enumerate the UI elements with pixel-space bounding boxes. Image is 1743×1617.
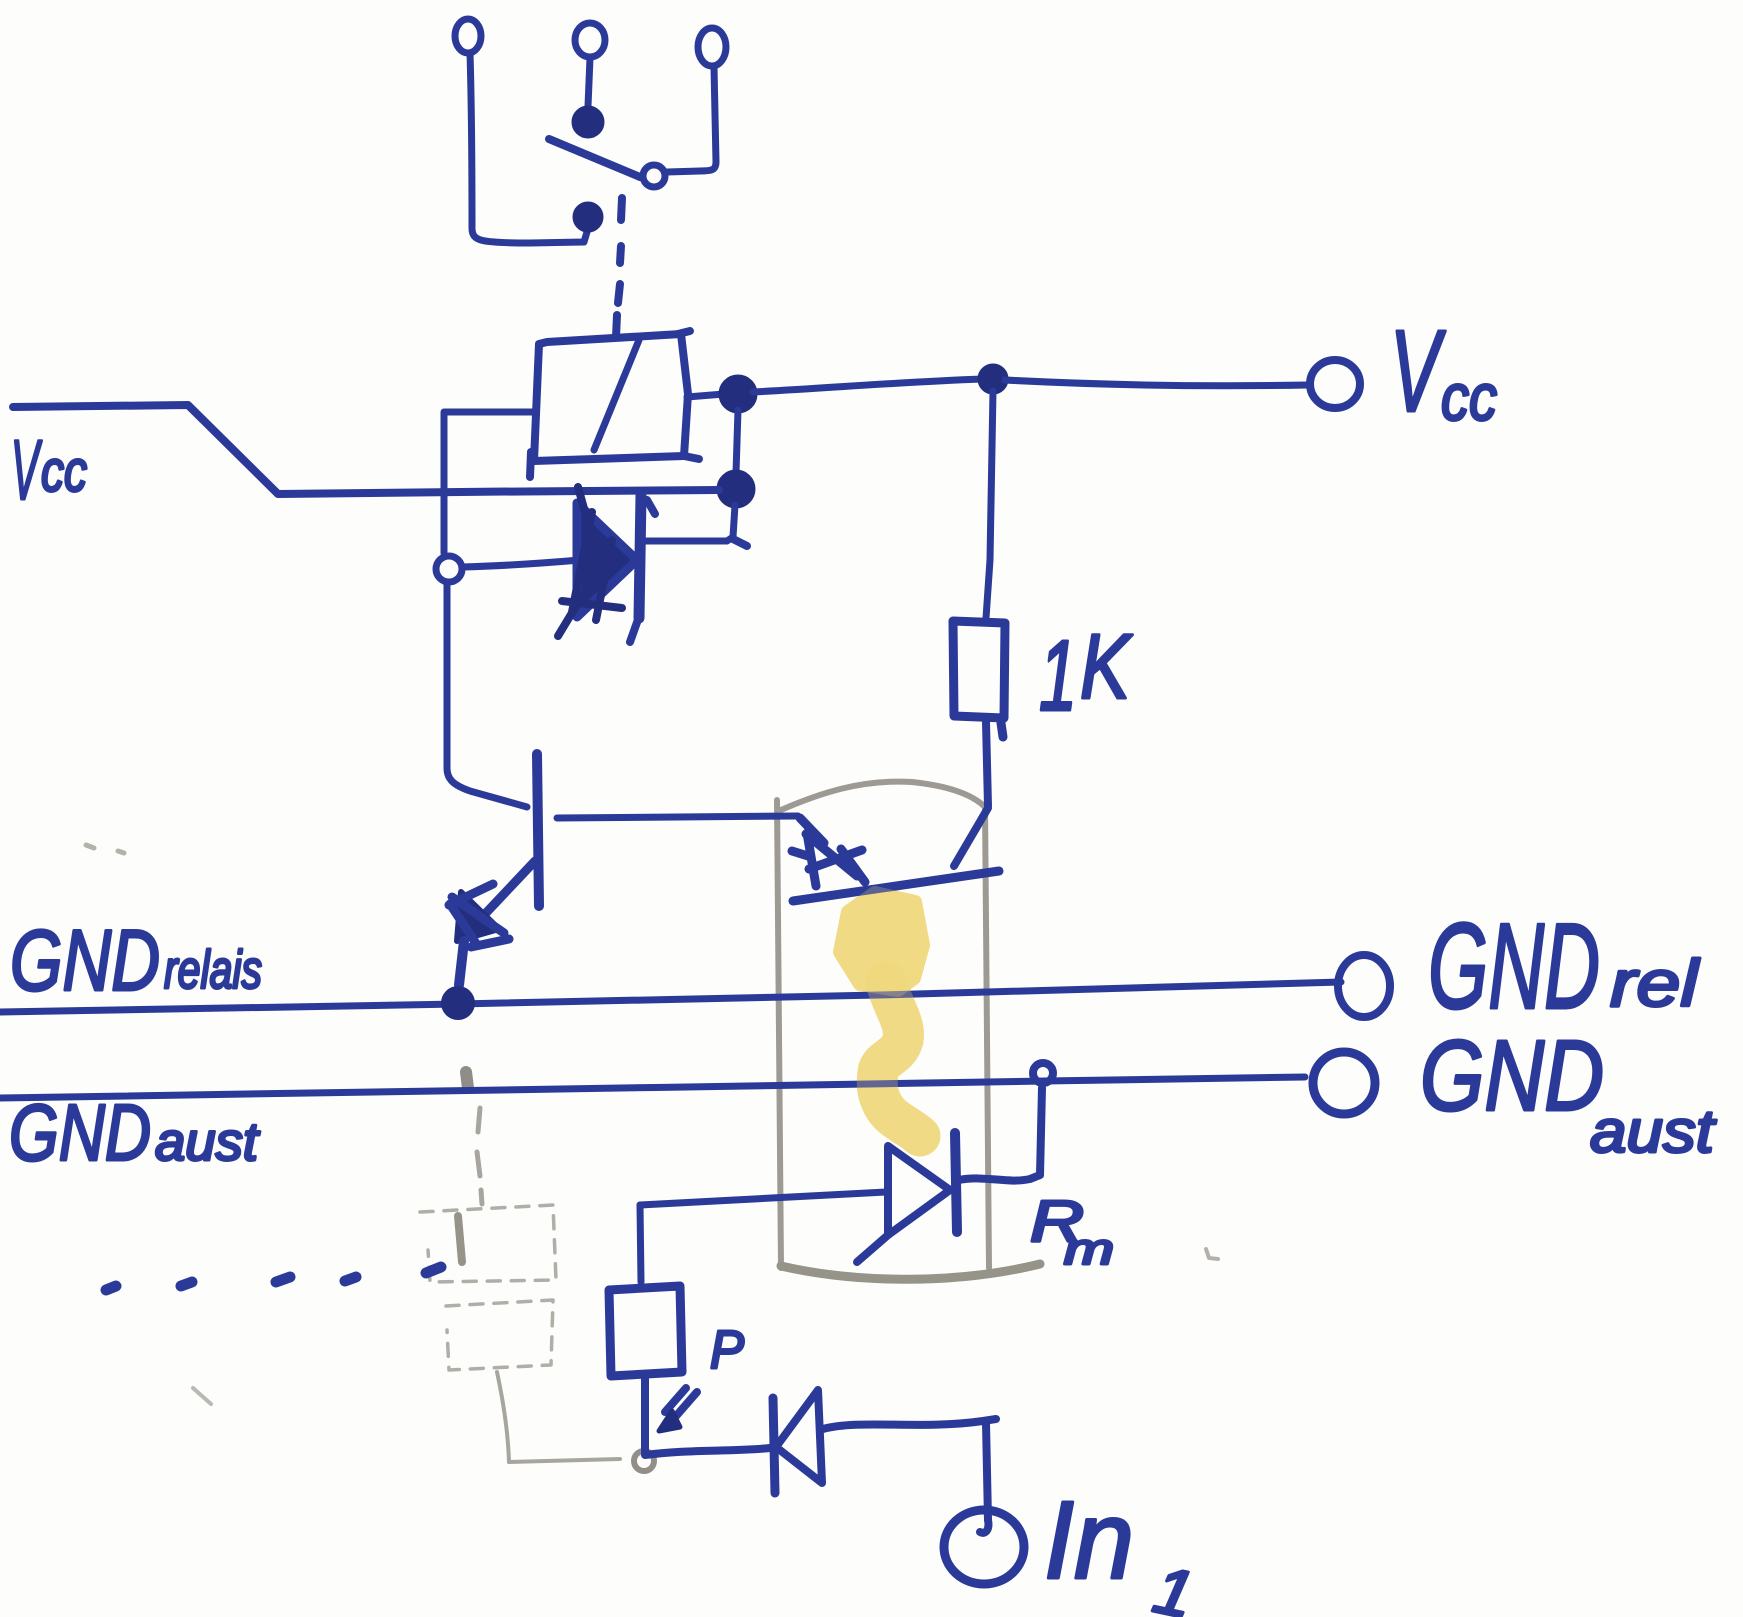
relay contact terminal T2: [575, 23, 605, 57]
diode D2 cathode bar: [773, 1398, 775, 1493]
D1 scribble strokes: [558, 487, 622, 636]
wire J3 down to resistor: [986, 391, 993, 618]
GND relais terminal circle: [1338, 955, 1390, 1017]
pencil speck bottom left: [193, 1388, 211, 1404]
dotted row bottom left: [106, 1267, 441, 1290]
wire J3 to Vcc terminal: [1005, 380, 1308, 386]
label Vcc left: [11, 423, 87, 517]
switch contact circle: [643, 165, 665, 187]
GND aust rail: [0, 1077, 1305, 1098]
pencil dashed box 2: [446, 1300, 553, 1370]
D1 cathode bar: [639, 495, 641, 618]
LED cathode junction ring: [1033, 1063, 1053, 1083]
GND aust terminal circle: [1313, 1052, 1375, 1114]
pencil tick near Rm: [1206, 1249, 1218, 1259]
svg-text:1: 1: [1039, 620, 1077, 732]
svg-text:K: K: [1080, 616, 1133, 718]
switch pole dot: [575, 109, 601, 135]
corner knot tick: [733, 539, 747, 546]
P wiper arrow: [665, 1388, 697, 1423]
resistor R1 1K: [953, 621, 1005, 718]
LED cathode bar: [955, 1133, 957, 1232]
svg-text:V: V: [11, 423, 42, 517]
junction dot J1: [722, 378, 754, 410]
wire node A down to transistor: [447, 584, 527, 807]
wire T1 down to switch common: [470, 53, 587, 243]
svg-text:cc: cc: [1441, 360, 1497, 434]
svg-text:m: m: [1064, 1225, 1114, 1274]
svg-text:GND: GND: [10, 913, 160, 1009]
wire D1 cathode to J2: [643, 505, 735, 541]
Vcc terminal circle: [1310, 360, 1360, 408]
relay coil corner tick: [678, 331, 690, 334]
label Vcc right: [1390, 306, 1497, 436]
relay coil K1: [534, 334, 688, 461]
svg-text:V: V: [1390, 306, 1446, 436]
GND relais rail: [0, 982, 1341, 1012]
pencil wire to diode junction: [497, 1372, 654, 1471]
label GND aust (left): [9, 1088, 260, 1177]
Q1 emitter: [468, 861, 535, 932]
svg-text:In: In: [1044, 1479, 1134, 1602]
label 1K: [1039, 616, 1133, 732]
relay contact terminal T1: [455, 19, 481, 53]
phototransistor emitter lead: [800, 818, 824, 843]
relay coil bottom overshoot: [684, 456, 699, 459]
relay coil diagonal: [594, 340, 639, 450]
junction dot on GND relais: [441, 986, 475, 1020]
wire P to diode D2: [645, 1448, 770, 1455]
switch common dot: [576, 205, 600, 229]
svg-text:relais: relais: [164, 940, 262, 1000]
wire P box down: [641, 1378, 649, 1452]
wire relay left to collector rail: [444, 412, 534, 553]
potentiometer P box: [609, 1286, 682, 1376]
yellow highlighter overlay (translucent): [877, 982, 920, 1136]
svg-text:GND: GND: [1428, 898, 1600, 1034]
node ring A (diode anode junction): [436, 556, 462, 582]
wire T2 down: [588, 58, 590, 106]
Q1 emitter tail to GND node: [459, 941, 464, 985]
wire down to In1: [986, 1423, 988, 1520]
yellow highlighter mark: [840, 893, 923, 990]
LED bottom tail: [857, 1235, 888, 1262]
left Vcc lead-in wire: [13, 405, 719, 494]
wire resistor to phototransistor: [986, 722, 988, 806]
In1 wire hook: [980, 1520, 988, 1533]
resistor bottom tick: [1001, 723, 1003, 737]
label In 1: [1044, 1479, 1200, 1617]
In1 terminal circle: [944, 1510, 1024, 1584]
Q1 emitter arrowhead fill: [457, 892, 499, 941]
wire down from LED-anode wire corner to P box: [640, 1205, 641, 1282]
label GND relais (left): [10, 913, 262, 1009]
wire T3 down to switch contact: [667, 67, 716, 172]
relay contact terminal T3: [698, 28, 726, 66]
svg-text:cc: cc: [41, 439, 87, 504]
switch arm: [549, 139, 640, 177]
phototransistor emitter arrowhead: [806, 833, 865, 886]
svg-text:GND: GND: [9, 1088, 151, 1177]
svg-text:GND: GND: [1420, 1020, 1604, 1132]
flyback diode D1 body: [577, 503, 637, 617]
wire relay right to Vcc node: [687, 394, 724, 397]
diode D2 triangle: [776, 1390, 822, 1483]
label GND rel (right): [1428, 898, 1701, 1034]
optocoupler LED wire from P box corner: [640, 1192, 886, 1205]
D2 anode wire to In terminal: [823, 1419, 996, 1429]
label GND aust (right): [1420, 1020, 1717, 1165]
pencil dashed box 1: [420, 1205, 556, 1282]
svg-text:rel: rel: [1610, 946, 1701, 1020]
emitter arrow small dash: [792, 851, 808, 856]
pencil specks left margin: [86, 845, 124, 853]
relay coil left tail: [530, 452, 531, 477]
Q1 emitter arrowhead: [449, 884, 509, 947]
junction dot J3: [981, 367, 1005, 391]
phototransistor base bar: [793, 871, 999, 901]
svg-text:aust: aust: [155, 1112, 260, 1172]
dashed actuator line: [616, 198, 622, 337]
LED cathode wire to GND aust: [959, 1088, 1042, 1181]
label R m: [1030, 1189, 1114, 1274]
LED triangle: [888, 1146, 950, 1235]
wire J1 to J3: [753, 379, 982, 392]
svg-text:P: P: [710, 1320, 744, 1380]
transistor Q1 base bar: [537, 754, 539, 906]
optocoupler phototransistor collector lead: [954, 808, 988, 866]
Q1 base lead to optocoupler: [557, 816, 798, 818]
D1 cathode bar tails: [630, 500, 655, 642]
junction dot J2: [720, 473, 752, 505]
pencil dashed link below GND_aust: [466, 1072, 482, 1204]
svg-text:aust: aust: [1590, 1098, 1717, 1165]
P wiper arrowhead: [659, 1411, 680, 1431]
label P: [710, 1320, 744, 1380]
pencil box around optocoupler: [777, 782, 1040, 1280]
wire J1 to J2: [736, 410, 738, 473]
flyback diode D1 wire from node A: [462, 560, 580, 567]
